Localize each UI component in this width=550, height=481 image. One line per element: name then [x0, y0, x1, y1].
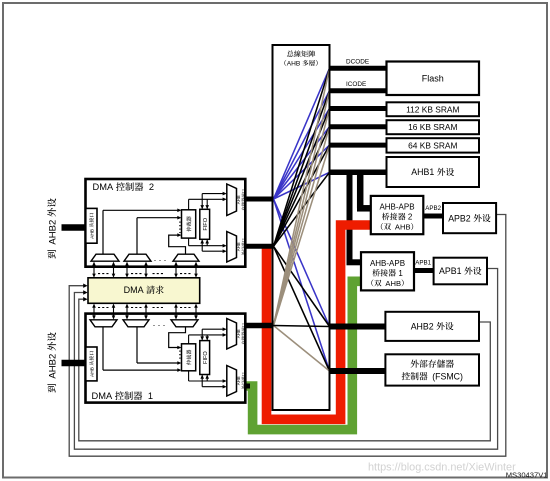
svg-text:FIFO: FIFO	[203, 217, 209, 230]
svg-text:AHB: AHB	[89, 227, 95, 238]
DMA2 AHB memory port	[227, 184, 246, 216]
svg-text:2: 2	[144, 182, 154, 192]
svg-text:https://blog.csdn.net/XieWinte: https://blog.csdn.net/XieWinter	[368, 462, 516, 474]
DCODE label	[346, 59, 369, 66]
APB1 label	[415, 259, 431, 266]
request lines DMA2 to DMA request box	[92, 262, 198, 278]
DMA1 channel mux 2	[123, 320, 149, 327]
ICODE label	[346, 81, 366, 88]
svg-text:64 KB SRAM: 64 KB SRAM	[408, 140, 457, 150]
DMA1 channel mux 1	[90, 320, 117, 327]
ICODE bus stub	[329, 88, 387, 93]
APB2 label	[425, 205, 441, 212]
svg-text:AHB: AHB	[236, 195, 241, 204]
svg-text:DMA: DMA	[124, 285, 147, 295]
APB1 link wire	[414, 268, 434, 273]
trunk wire AHB1 bus to AHB-APB bridge 2	[357, 172, 371, 208]
DMA2 channel mux 1	[91, 254, 119, 261]
svg-text:AHB2: AHB2	[47, 351, 58, 378]
bus matrix interconnect lines from DMA1 memory port (tan/black)	[274, 68, 330, 371]
bus matrix interconnect lines from DMA2 peripheral port (black)	[274, 68, 330, 371]
svg-text:. . .: . . .	[154, 253, 167, 263]
DMA1 AHB slave interface	[86, 347, 97, 381]
request lines DMA request box to DMA1	[92, 304, 198, 320]
AHB-APB bridge 2 box	[371, 196, 424, 234]
DMA2 channel mux 3	[173, 254, 199, 261]
APB2 peripherals box	[443, 203, 496, 233]
DMA controller 2 box	[86, 179, 246, 267]
DMA2 arbiter	[182, 210, 196, 238]
64 KB SRAM box	[387, 138, 480, 152]
DMA2 FIFO-to-port wires	[189, 192, 227, 253]
DMA1 channel mux 3	[171, 320, 198, 327]
DMA2 channel mux dots	[154, 253, 167, 263]
APB2 link wire	[423, 214, 443, 219]
svg-text:ICODE: ICODE	[346, 81, 366, 88]
svg-text:AHB: AHB	[236, 376, 241, 385]
AHB2 peripherals box	[385, 312, 479, 341]
svg-text:AHB1: AHB1	[411, 167, 436, 177]
wire APB2 peripherals to DMA request (feedback loop)	[69, 215, 506, 457]
bus stub to FSMC	[329, 368, 386, 374]
bus stub to 112KB SRAM	[329, 106, 387, 111]
DMA2 AHB slave interface	[86, 208, 97, 243]
bus stub to AHB1 peripherals	[329, 170, 387, 176]
svg-text:FIFO: FIFO	[203, 351, 209, 364]
DMA2 FIFO	[200, 209, 210, 239]
svg-text:AHB: AHB	[89, 366, 95, 377]
wire AHB2 peripherals to DMA request (feedback loop)	[79, 297, 491, 441]
bus stub to AHB2 peripherals	[329, 324, 386, 330]
svg-text:DMA: DMA	[92, 391, 115, 401]
svg-text:1: 1	[396, 269, 403, 278]
DMA1 channel mux dots	[153, 318, 166, 328]
trunk wire AHB1 bus to AHB-APB bridge 1	[347, 172, 362, 262]
green bus wire DMA1 peripheral port to AHB-APB bridge 1	[246, 281, 361, 429]
svg-text:2: 2	[406, 213, 413, 222]
svg-text:AHB-APB: AHB-APB	[379, 203, 414, 212]
svg-text:AHB: AHB	[395, 223, 411, 232]
wire APB1 peripherals to DMA request (feedback loop)	[74, 269, 497, 450]
svg-text:Flash: Flash	[422, 73, 444, 83]
svg-text:112 KB SRAM: 112 KB SRAM	[406, 104, 459, 114]
DMA1 peripheral port black stublet	[245, 384, 250, 389]
DMA1 mux-to-arbiter wires	[103, 327, 186, 372]
label to AHB2 peripherals (top)	[47, 198, 58, 258]
DMA1 AHB peripheral port	[227, 366, 246, 397]
bus matrix box (AHB multilayer)	[273, 45, 330, 410]
svg-text:APB1: APB1	[415, 259, 431, 266]
watermark	[368, 462, 516, 474]
svg-text:1: 1	[143, 391, 153, 401]
DMA2 AHB peripheral port	[227, 232, 246, 263]
DMA1 memory port bus stub	[245, 323, 273, 329]
16 KB SRAM box	[387, 120, 480, 134]
svg-text:AHB: AHB	[287, 61, 302, 68]
svg-text:. . .: . . .	[153, 318, 166, 328]
FSMC external memory controller box	[385, 354, 479, 385]
DMA2 memory port bus stub	[245, 197, 273, 202]
bus stub to 64KB SRAM	[329, 143, 387, 148]
DMA1 FIFO	[200, 341, 210, 375]
DMA request box	[88, 278, 200, 304]
figure number MS30437V1	[506, 471, 548, 480]
svg-text:MS30437V1: MS30437V1	[506, 471, 548, 480]
svg-text:AHB-APB: AHB-APB	[370, 259, 405, 268]
svg-text:AHB: AHB	[236, 329, 241, 338]
DMA controller 1 box	[86, 314, 246, 403]
DMA2 mux-to-arbiter wires	[103, 209, 186, 255]
svg-text:APB2: APB2	[425, 205, 441, 212]
svg-text:APB1: APB1	[439, 266, 464, 276]
label to AHB2 peripherals (bottom)	[47, 332, 58, 392]
bus stub to 16KB SRAM	[329, 124, 387, 129]
svg-text:DMA: DMA	[93, 182, 116, 192]
left stub to AHB2 peripherals (top)	[62, 224, 86, 231]
svg-text:(FSMC): (FSMC)	[432, 372, 463, 382]
DMA2 channel mux 2	[124, 254, 151, 261]
svg-text:AHB: AHB	[236, 242, 241, 251]
red bus wire DMA2 peripheral port to AHB-APB bridge 2	[267, 225, 371, 419]
APB1 peripherals box	[434, 258, 487, 285]
112 KB SRAM box	[387, 102, 480, 116]
AHB-APB bridge 1 box	[361, 252, 414, 290]
DCODE bus stub	[329, 66, 387, 71]
svg-text:AHB2: AHB2	[411, 321, 436, 331]
Flash box	[387, 62, 480, 96]
DMA2 peripheral port bus stub	[245, 244, 273, 249]
DMA1 FIFO-to-port wires	[189, 327, 227, 388]
bus matrix interconnect lines from DMA2 memory port (blue)	[274, 68, 330, 371]
svg-text:APB2: APB2	[448, 213, 473, 223]
request line continuation dashes	[98, 274, 192, 308]
DMA1 arbiter	[182, 344, 196, 371]
svg-text:AHB2: AHB2	[47, 217, 58, 244]
svg-text:AHB: AHB	[385, 279, 401, 288]
svg-text:DCODE: DCODE	[346, 59, 369, 66]
AHB1 peripherals box	[387, 157, 480, 187]
svg-text:16 KB SRAM: 16 KB SRAM	[408, 122, 457, 132]
DMA1 AHB memory port	[227, 319, 246, 350]
left stub to AHB2 peripherals (bottom)	[62, 360, 86, 367]
